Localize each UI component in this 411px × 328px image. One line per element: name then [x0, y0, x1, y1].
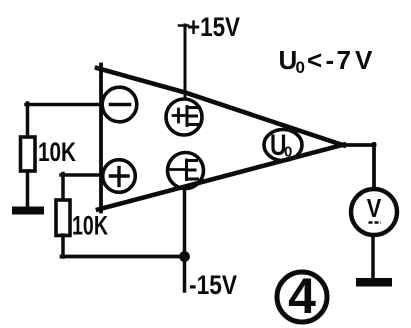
svg-text:4: 4: [288, 268, 316, 324]
svg-text:V: V: [355, 45, 373, 75]
svg-text:<: <: [307, 45, 322, 75]
svg-text:7: 7: [337, 45, 351, 75]
svg-text:10K: 10K: [72, 211, 108, 241]
svg-text:-: -: [326, 45, 335, 75]
svg-text:V: V: [367, 193, 382, 223]
svg-text:+15V: +15V: [187, 12, 240, 42]
svg-text:0: 0: [284, 144, 292, 161]
svg-text:10K: 10K: [38, 137, 76, 167]
svg-text:-15V: -15V: [189, 270, 237, 300]
svg-text:U: U: [279, 45, 298, 75]
svg-text:0: 0: [296, 58, 305, 77]
